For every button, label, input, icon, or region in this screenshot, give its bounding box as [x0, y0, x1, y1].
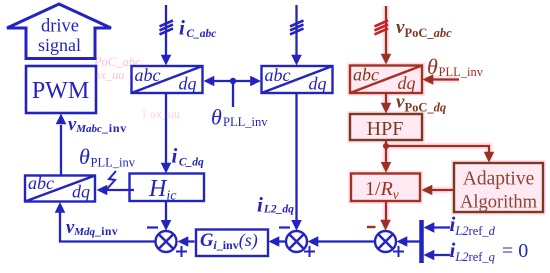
abc/dq block (top-left, blue) U1: [132, 66, 203, 93]
svg-text:PWM: PWM: [32, 78, 89, 104]
wire iC_dq: [165, 93, 167, 164]
abc/dq block (lower-left, blue) U3: [25, 176, 95, 202]
plus sign sum1: [176, 251, 187, 253]
HPF box: [350, 114, 422, 140]
arrow theta into lower abc/dq: [106, 189, 134, 191]
wire sum2 to G: [279, 240, 287, 242]
reference bus bar: [419, 220, 424, 263]
svg-text:dq: dq: [309, 74, 327, 94]
svg-text:abc: abc: [353, 65, 379, 85]
svg-text:dq: dq: [179, 74, 197, 94]
arrow theta into red abc/dq: [433, 78, 459, 80]
drive signal block arrow: [7, 4, 111, 59]
3-phase slashes: [290, 20, 304, 26]
summing junction S2: [286, 231, 307, 252]
1/Rv box: [351, 174, 420, 202]
wire HPF down with junction dot: [385, 140, 387, 163]
Adaptive Algorithm box: [454, 163, 543, 212]
wire down from dot: [232, 81, 234, 107]
double arrow between top blue blocks: [212, 80, 252, 82]
PWM box: [26, 66, 96, 113]
svg-text:θ: θ: [211, 105, 222, 130]
arrow AA to 1/Rv: [432, 189, 454, 191]
svg-text:PLL_inv: PLL_inv: [223, 115, 268, 129]
pink compression halo around red elements: [350, 6, 543, 229]
svg-text:ox_uu: ox_uu: [94, 68, 125, 82]
svg-text:HPF: HPF: [367, 118, 404, 140]
svg-text:θ: θ: [79, 144, 90, 169]
wire dot to Adaptive Algorithm: [386, 146, 489, 153]
wire bar to sum3: [406, 240, 420, 242]
minus sign sum2: [279, 226, 290, 228]
arrow iL2ref_d into bar: [433, 226, 450, 228]
svg-text:drive: drive: [41, 17, 79, 37]
minus sign sum3 (red): [367, 226, 376, 228]
plus sign sum2: [304, 251, 315, 253]
plus sign sum3: [393, 251, 404, 253]
zigzag squiggle on theta wire: [107, 171, 116, 189]
wire sum3 to sum2: [318, 240, 375, 242]
Hic box: [130, 174, 205, 202]
svg-text:abc: abc: [28, 173, 54, 193]
wire Hic to sum1: [165, 201, 167, 221]
wire lower abc/dq up to PWM: [60, 125, 62, 176]
3-phase slashes red: [375, 20, 389, 26]
svg-text:signal: signal: [38, 35, 81, 55]
junction dot: [383, 143, 389, 149]
abc/dq block (red) U4: [350, 66, 422, 94]
arrow iL2ref_q into bar: [433, 254, 450, 256]
wire sum1 output to abc/dq lower: [60, 212, 156, 242]
Gi_inv(s) box: [196, 230, 268, 257]
minus sign sum1: [147, 226, 158, 228]
svg-text:1 ox_uu: 1 ox_uu: [141, 107, 180, 121]
svg-text:dq: dq: [72, 182, 90, 202]
wire 1/Rv to sum3: [385, 201, 387, 220]
summing junction S3: [375, 231, 396, 252]
svg-text:Algorithm: Algorithm: [460, 193, 538, 213]
wire G to sum1: [187, 240, 195, 242]
wire vPoC_abc input: [385, 6, 387, 55]
junction dot: [230, 78, 236, 84]
svg-text:Adaptive: Adaptive: [463, 169, 534, 190]
wire red abc/dq to HPF: [385, 93, 387, 104]
3-phase slashes on iC_abc wire: [160, 20, 174, 26]
svg-text:PLL_inv: PLL_inv: [91, 156, 136, 170]
svg-text:PLL_inv: PLL_inv: [439, 65, 484, 79]
wire input to right top blue abc/dq: [295, 5, 297, 56]
summing junction S1: [156, 231, 177, 252]
wire top-right abc/dq down to sum2: [295, 93, 297, 221]
wire iC_abc input: [165, 5, 167, 56]
svg-text:abc: abc: [265, 65, 291, 85]
svg-text:dq: dq: [398, 73, 416, 93]
abc/dq block (top-right, blue) U2: [262, 66, 333, 93]
svg-text:abc: abc: [135, 65, 161, 85]
